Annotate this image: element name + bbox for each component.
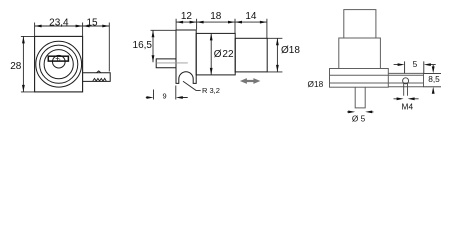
dimension 15 right extension line [108,23,110,72]
dimension 28 extension lines [21,36,35,92]
dimension D18 line with arrows [276,38,278,72]
dimension 5 extension lines [405,61,424,73]
dimension M4 outside arrows [394,98,419,100]
svg-text:R 3,2: R 3,2 [202,86,220,95]
side view: mounting plate with notch [176,30,196,83]
front view: side terminal outline [83,73,111,82]
front view: bezel outer circle [36,41,82,87]
dimension 9 extension lines [154,86,176,100]
front view: tiny key mark inside key head [56,57,60,61]
rear view: stem D5 [355,87,365,108]
dimension 16,5 line with arrows [152,30,154,62]
svg-text:5: 5 [413,59,418,69]
front view: lock body square [35,36,83,92]
svg-text:8,5: 8,5 [428,74,440,84]
svg-text:9: 9 [162,92,166,101]
front view: caret mark on terminal top [97,71,101,73]
svg-text:M4: M4 [402,101,414,111]
rear view: knob collar [339,38,381,69]
dimension 8,5 extension lines [424,73,442,86]
side view: big cylinder D22 [196,33,235,75]
dimension 8,5 down arrow [432,65,434,68]
front view: bezel middle circle [40,45,78,83]
dimension 16,5 extension line [151,29,177,31]
dimension 23,4 line with arrows [35,25,83,27]
rear view: knob top block [330,10,424,108]
dimension 9 outside arrows [146,97,188,99]
svg-text:18: 18 [210,11,222,22]
svg-text:15: 15 [86,17,98,28]
side view: small cylinder D18 [235,38,267,72]
side view: key blade [156,59,176,68]
dimension 15 line with arrows [83,25,110,27]
svg-text:28: 28 [10,61,22,72]
dimension D18 extension lines [267,38,282,72]
dimension 23,4 extension lines [35,23,83,37]
dimension D5 outside arrows [347,111,374,113]
front view: bezel inner circle [44,50,73,79]
rear view: flange body [330,69,389,88]
dimension 28 line with arrows [22,36,24,92]
dimension 12-18-14 extension lines [176,19,267,38]
svg-text:12: 12 [181,11,193,22]
rear view: M4 hidden lines [404,84,408,96]
front view: key head bold rectangle [48,56,68,61]
dimension 8,5 up arrow [432,91,434,94]
svg-text:Ø18: Ø18 [281,45,300,56]
svg-text:Ø18: Ø18 [308,79,324,89]
svg-text:Ø 22: Ø 22 [214,49,234,60]
dimension 5 outside arrows [394,64,436,66]
dimension 18 line with arrows [197,21,235,23]
rear view: side tab [388,73,423,86]
front view: zigzag thread mark in terminal [93,78,106,81]
rear view: M4 hole circle [403,78,409,84]
svg-text:Ø 5: Ø 5 [352,113,366,123]
front view: plug circle [53,55,66,68]
svg-text:23,4: 23,4 [49,17,69,28]
side view: key center line gray [156,62,188,64]
svg-text:16,5: 16,5 [133,40,153,51]
dimension 14 line with arrows [235,21,267,23]
dimension 12 line with arrows [176,21,197,23]
actuation gray double arrow [246,80,255,82]
svg-text:14: 14 [245,11,257,22]
label R 3,2 leader line [183,81,201,90]
dimension D22 line with arrows [210,33,212,75]
rear view: flange inner lines [330,75,424,83]
